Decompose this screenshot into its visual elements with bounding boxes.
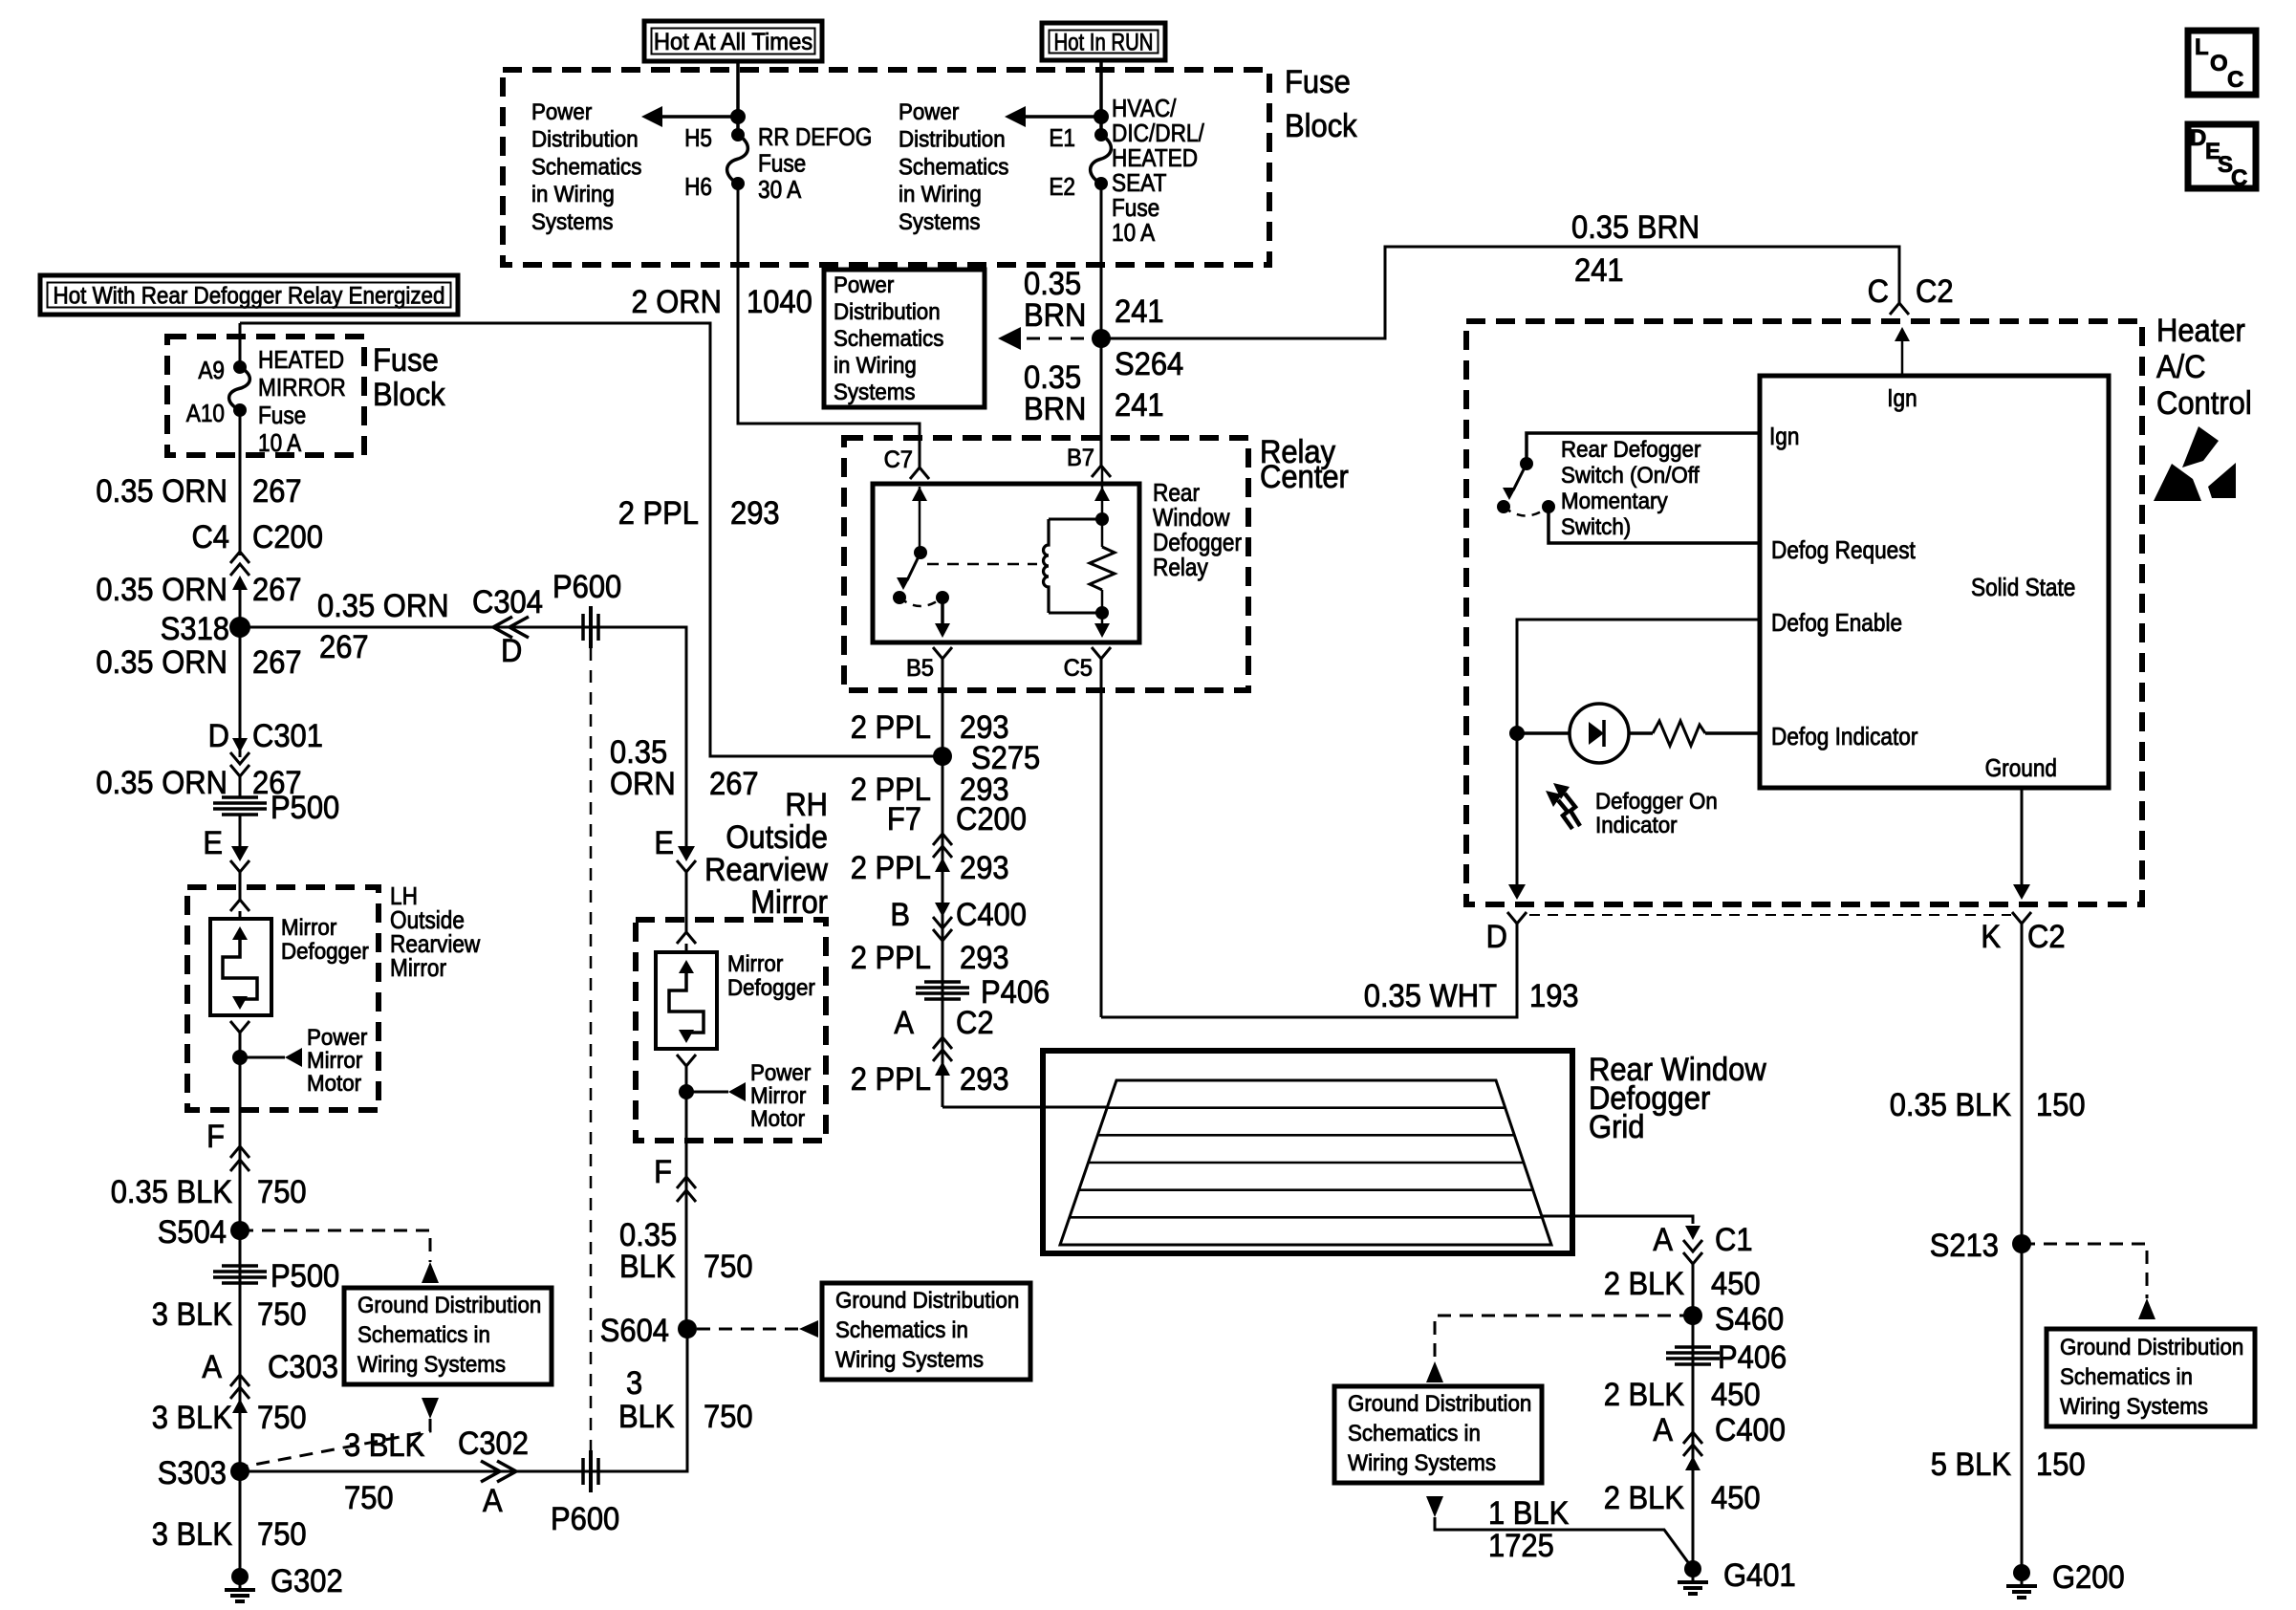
inline connector P500 (222, 795, 258, 799)
svg-text:C400: C400 (956, 897, 1027, 933)
relay switch contact dot (893, 591, 906, 604)
svg-text:193: 193 (1529, 978, 1579, 1014)
switch contact dot left (1497, 500, 1510, 513)
svg-text:S213: S213 (1930, 1228, 1999, 1264)
svg-text:241: 241 (1574, 252, 1624, 289)
svg-text:0.35 ORN: 0.35 ORN (96, 473, 227, 510)
svg-text:C304: C304 (472, 584, 543, 620)
arrow to Power Distribution Schematics (right) (1023, 115, 1101, 119)
svg-text:Momentary: Momentary (1561, 489, 1668, 514)
svg-text:750: 750 (704, 1249, 753, 1285)
svg-text:in Wiring: in Wiring (899, 182, 982, 207)
inline connector P600 (bottom) (581, 1458, 585, 1485)
svg-text:293: 293 (730, 495, 780, 532)
inline connector P600 (top) (581, 614, 585, 641)
svg-text:2 PPL: 2 PPL (851, 940, 931, 976)
banner: Hot With Rear Defogger Relay Energized (40, 275, 458, 315)
wire Defog Enable (1517, 620, 1760, 733)
svg-text:BRN: BRN (1024, 297, 1086, 334)
svg-text:293: 293 (960, 850, 1009, 886)
svg-text:Systems: Systems (834, 380, 916, 405)
wire 2 ORN 1040 from fuse H6 down, over to relay C7 (738, 184, 920, 468)
svg-text:A9: A9 (198, 356, 225, 384)
svg-text:Ground Distribution: Ground Distribution (357, 1293, 541, 1318)
svg-text:BLK: BLK (618, 1399, 675, 1435)
svg-text:C: C (2231, 165, 2247, 191)
svg-text:C400: C400 (1715, 1412, 1786, 1448)
svg-text:Defog Enable: Defog Enable (1771, 608, 1902, 637)
wire below element (230, 1021, 249, 1033)
LH mirror defogger element (210, 919, 271, 1015)
svg-text:C2: C2 (2027, 919, 2066, 955)
note box Ground Distribution (S460) (1334, 1386, 1542, 1483)
svg-text:Defogger: Defogger (727, 975, 815, 1001)
svg-text:Ground Distribution: Ground Distribution (835, 1288, 1019, 1314)
svg-text:P500: P500 (271, 790, 339, 826)
wire Ign to rear defogger switch (1527, 433, 1760, 464)
svg-text:2 PPL: 2 PPL (851, 850, 931, 886)
svg-text:2 PPL: 2 PPL (851, 1061, 931, 1098)
svg-text:Power: Power (834, 272, 894, 298)
svg-text:C2: C2 (1916, 273, 1954, 310)
svg-text:P600: P600 (552, 569, 621, 605)
svg-text:Mirror: Mirror (727, 951, 783, 977)
svg-text:Schematics in: Schematics in (357, 1322, 490, 1348)
LED indicator circle (1570, 704, 1629, 763)
svg-text:1725: 1725 (1488, 1528, 1554, 1564)
svg-text:P406: P406 (1718, 1339, 1787, 1376)
svg-text:Mirror: Mirror (750, 884, 828, 921)
svg-text:RR DEFOG: RR DEFOG (758, 122, 872, 151)
svg-text:10 A: 10 A (1112, 218, 1156, 247)
svg-text:A/C: A/C (2156, 349, 2206, 385)
svg-text:Switch (On/Off: Switch (On/Off (1561, 463, 1700, 489)
svg-text:H5: H5 (684, 123, 712, 152)
svg-text:in Wiring: in Wiring (531, 182, 615, 207)
svg-text:Power: Power (750, 1060, 811, 1086)
LH mirror dashed box (187, 887, 379, 1110)
svg-text:Defogger: Defogger (281, 939, 369, 965)
wire 2 PPL into grid (942, 1106, 1109, 1109)
svg-text:Schematics in: Schematics in (2060, 1364, 2193, 1390)
banner: Hot At All Times (644, 21, 822, 61)
svg-text:A: A (202, 1349, 222, 1385)
grid horizontal lines (1107, 1106, 1505, 1109)
svg-text:Mirror: Mirror (390, 953, 446, 982)
svg-text:Defog Request: Defog Request (1771, 535, 1917, 564)
svg-text:BLK: BLK (619, 1249, 676, 1285)
svg-text:2 PPL: 2 PPL (851, 709, 931, 746)
junction dot defog indicator (1509, 726, 1525, 741)
svg-text:Schematics: Schematics (899, 154, 1008, 180)
splice S504 (230, 1221, 249, 1240)
svg-text:E: E (203, 825, 223, 861)
note box Power Distribution Schematics in Wiring Systems (824, 270, 985, 407)
svg-text:F: F (654, 1154, 672, 1190)
wire C5 down from relay (1100, 659, 1103, 1017)
svg-text:Wiring Systems: Wiring Systems (835, 1347, 984, 1373)
svg-text:Ground Distribution: Ground Distribution (2060, 1335, 2243, 1360)
svg-text:G401: G401 (1723, 1557, 1796, 1594)
ground G401 (1684, 1560, 1701, 1577)
svg-text:Fuse: Fuse (373, 342, 439, 379)
svg-text:150: 150 (2036, 1447, 2086, 1483)
svg-text:F: F (206, 1119, 225, 1155)
svg-text:Control: Control (2156, 385, 2252, 422)
svg-text:C2: C2 (956, 1005, 994, 1041)
svg-text:3 BLK: 3 BLK (152, 1516, 233, 1553)
svg-text:Wiring Systems: Wiring Systems (1348, 1450, 1496, 1476)
wire: Hot At All Times down to H5 (736, 61, 740, 135)
dashed from S604 to right note box (697, 1328, 799, 1331)
heater A/C control dashed box (1466, 321, 2142, 904)
svg-text:C302: C302 (458, 1425, 529, 1462)
svg-text:C200: C200 (956, 801, 1027, 838)
wire fuse A10 down to S318 etc (239, 410, 242, 555)
svg-text:267: 267 (709, 766, 759, 802)
svg-text:Fuse: Fuse (758, 149, 806, 178)
dashed from S213 to right note box (2022, 1244, 2147, 1298)
wire 3 BLK 750 from S303 right through C302 P600 up to S604 (240, 1329, 687, 1471)
svg-text:D: D (2190, 125, 2206, 151)
svg-text:3 BLK: 3 BLK (152, 1400, 233, 1436)
wire 1 BLK 1725 from note box to G401 (1435, 1517, 1693, 1569)
wire S504 to P500 to S303 (239, 1230, 242, 1471)
svg-text:450: 450 (1711, 1377, 1761, 1413)
fuse block dashed box (503, 70, 1269, 265)
svg-text:Ground: Ground (1985, 753, 2057, 782)
svg-text:2 BLK: 2 BLK (1604, 1480, 1685, 1516)
ground G302 (231, 1568, 249, 1585)
splice S275 (933, 747, 952, 766)
svg-text:Schematics: Schematics (531, 154, 641, 180)
wire 2 PPL from B5 to S275 to grid (942, 659, 944, 1107)
svg-text:Ign: Ign (1769, 422, 1799, 450)
wire K down to S213 and G200 (2021, 924, 2024, 1573)
svg-text:750: 750 (257, 1296, 307, 1333)
svg-text:D: D (208, 718, 229, 754)
note box Ground Distribution (S604) (822, 1283, 1030, 1380)
svg-text:O: O (2210, 51, 2228, 76)
svg-text:10 A: 10 A (258, 428, 302, 457)
svg-text:Mirror: Mirror (750, 1083, 806, 1109)
hot-with wire from fuse A9 run to S275 (240, 323, 942, 756)
svg-text:B: B (890, 897, 910, 933)
grid trapezoid (1060, 1080, 1551, 1245)
svg-text:S264: S264 (1115, 346, 1183, 382)
triangle below S460 note box (1426, 1496, 1443, 1517)
svg-text:150: 150 (2036, 1087, 2086, 1123)
svg-text:Schematics in: Schematics in (1348, 1421, 1481, 1447)
wire down to S460 (1692, 1264, 1695, 1569)
svg-text:267: 267 (252, 572, 302, 608)
svg-text:H6: H6 (684, 172, 712, 201)
svg-text:1 BLK: 1 BLK (1488, 1495, 1570, 1532)
relay switch arm (907, 553, 921, 580)
fuse RR DEFOG 30A between H5 H6 (727, 135, 748, 184)
svg-text:Heater: Heater (2156, 313, 2245, 349)
svg-text:Rear Defogger: Rear Defogger (1561, 437, 1700, 463)
svg-text:0.35 ORN: 0.35 ORN (96, 765, 227, 801)
svg-text:750: 750 (257, 1174, 307, 1210)
svg-text:C1: C1 (1715, 1222, 1753, 1258)
chevron into LH mirror (230, 900, 249, 911)
note box Ground Distribution (left) (344, 1288, 552, 1384)
relay resistor (right branch) (1101, 468, 1104, 547)
svg-text:Hot At All Times: Hot At All Times (654, 29, 812, 55)
splice S213 (2012, 1234, 2031, 1253)
svg-text:3: 3 (626, 1365, 642, 1402)
svg-text:0.35 BRN: 0.35 BRN (1571, 209, 1700, 246)
wire defog indicator through LED and resistor (1517, 731, 1570, 735)
DESC box (2188, 124, 2256, 188)
svg-text:C: C (2227, 67, 2243, 93)
svg-text:Wiring Systems: Wiring Systems (2060, 1394, 2208, 1420)
svg-text:A: A (1653, 1412, 1673, 1448)
svg-text:0.35 WHT: 0.35 WHT (1364, 978, 1497, 1014)
svg-text:293: 293 (960, 940, 1009, 976)
svg-text:Solid State: Solid State (1971, 573, 2075, 601)
long dashed link from P600 to bottom P600 (590, 648, 593, 1451)
svg-text:Defog Indicator: Defog Indicator (1771, 722, 1918, 751)
svg-text:2 ORN: 2 ORN (631, 284, 722, 320)
svg-text:Hot With Rear Defogger Relay E: Hot With Rear Defogger Relay Energized (54, 282, 445, 309)
svg-text:Power: Power (531, 99, 592, 125)
svg-text:750: 750 (344, 1480, 394, 1516)
svg-text:Relay: Relay (1153, 553, 1208, 581)
note box Ground Distribution (S213) (2047, 1329, 2255, 1426)
wire to heater D 0.35 WHT 193 (1101, 924, 1517, 1017)
svg-text:0.35 ORN: 0.35 ORN (96, 644, 227, 681)
svg-text:G302: G302 (271, 1563, 343, 1599)
svg-text:Hot In RUN: Hot In RUN (1054, 29, 1154, 55)
svg-text:Indicator: Indicator (1595, 813, 1678, 838)
svg-text:2 BLK: 2 BLK (1604, 1377, 1685, 1413)
svg-text:Block: Block (1285, 108, 1358, 144)
svg-text:S460: S460 (1715, 1301, 1784, 1338)
svg-text:C303: C303 (268, 1349, 338, 1385)
wire 0.35 BRN 241 from fuse E2 down through S264 to relay B7 (1100, 184, 1103, 468)
resistor to Defog Indicator pin (1653, 721, 1705, 746)
relay output wire to B5 (941, 598, 944, 623)
svg-text:ORN: ORN (610, 766, 676, 802)
relay switch pivot dot (914, 546, 927, 559)
relay coil junction dots (1095, 512, 1109, 526)
svg-text:D: D (1486, 919, 1507, 955)
svg-text:2 BLK: 2 BLK (1604, 1266, 1685, 1302)
svg-text:Block: Block (373, 377, 446, 413)
connector C304 half arrows (493, 617, 512, 638)
junction dot above H5 (730, 109, 746, 124)
svg-text:S604: S604 (600, 1313, 669, 1349)
svg-text:P500: P500 (271, 1258, 339, 1295)
svg-text:750: 750 (257, 1516, 307, 1553)
svg-text:267: 267 (319, 629, 369, 665)
svg-text:Mirror: Mirror (281, 915, 336, 941)
relay center dashed box (844, 438, 1248, 690)
wire defog enable branch down to D (1516, 733, 1519, 885)
connector C302 half arrows (481, 1461, 500, 1482)
svg-text:K: K (1981, 919, 2001, 955)
RH mirror defogger element (656, 952, 717, 1049)
svg-text:Systems: Systems (531, 209, 614, 235)
svg-text:Center: Center (1260, 459, 1349, 495)
inline connector P500 (lower) (222, 1264, 258, 1268)
wire S318 down to C301 (239, 627, 242, 757)
RH mirror dashed box (636, 920, 826, 1141)
relay dashed link switch to coil (927, 563, 1037, 566)
fuse HVAC/DIC/DRL/HEATED SEAT 10A between E1 E2 (1091, 135, 1112, 184)
svg-text:S504: S504 (158, 1214, 227, 1251)
svg-text:5 BLK: 5 BLK (1931, 1447, 2012, 1483)
svg-text:450: 450 (1711, 1266, 1761, 1302)
svg-text:A: A (483, 1483, 503, 1519)
Ign pin top with arrow to C2 (1901, 338, 1904, 376)
wire: Hot In RUN down to E1 (1099, 60, 1103, 135)
switch arm (1513, 464, 1527, 490)
junction dot to power mirror motor (RH) (679, 1084, 694, 1099)
banner: Hot In RUN (1042, 23, 1165, 60)
ESD sensitive icon (2182, 426, 2219, 468)
svg-text:B7: B7 (1067, 445, 1094, 471)
svg-text:A: A (894, 1005, 914, 1041)
svg-text:C4: C4 (191, 519, 229, 555)
svg-text:E2: E2 (1049, 172, 1075, 201)
svg-text:A: A (1653, 1222, 1673, 1258)
lightning arrows icon (1565, 794, 1580, 826)
inline connector P406 (924, 980, 961, 984)
svg-text:2 PPL: 2 PPL (618, 495, 699, 532)
svg-text:P600: P600 (551, 1501, 619, 1537)
svg-text:30 A: 30 A (758, 175, 802, 204)
triangle below left note box (422, 1398, 439, 1419)
wire into heated mirror fuse (239, 323, 242, 367)
wire below element (RH) (677, 1055, 696, 1066)
svg-text:750: 750 (704, 1399, 753, 1435)
svg-text:750: 750 (257, 1400, 307, 1436)
junction dot to power mirror motor (LH) (232, 1050, 248, 1065)
solid state control box (1760, 376, 2109, 788)
inline connector P406 (lower) (1675, 1345, 1711, 1349)
svg-text:Rearview: Rearview (704, 852, 828, 888)
svg-text:S318: S318 (161, 611, 229, 647)
splice S303 (230, 1462, 249, 1481)
svg-text:in Wiring: in Wiring (834, 353, 917, 379)
svg-text:G200: G200 (2052, 1559, 2125, 1596)
dashed from note box down to S303 (244, 1419, 430, 1467)
rear window defogger grid box (1043, 1051, 1572, 1253)
wire S264 right and up to 0.35 BRN 241 run to heater C2 (1101, 247, 1899, 338)
svg-text:C7: C7 (884, 446, 913, 473)
wire out of grid to A C1 (1542, 1216, 1693, 1224)
svg-text:Fuse: Fuse (1285, 64, 1351, 100)
LOC box (2188, 31, 2256, 95)
svg-text:450: 450 (1711, 1480, 1761, 1516)
junction dot above E1 (1094, 109, 1109, 124)
svg-text:Distribution: Distribution (834, 299, 941, 325)
svg-text:Motor: Motor (750, 1106, 805, 1132)
relay switch input from C7 (912, 487, 927, 501)
svg-text:Ign: Ign (1887, 383, 1917, 412)
svg-text:Schematics: Schematics (834, 326, 943, 352)
svg-text:Schematics in: Schematics in (835, 1317, 968, 1343)
switch contact dot right (1542, 500, 1555, 513)
fuse HEATED MIRROR 10A (229, 367, 250, 410)
svg-text:Distribution: Distribution (531, 127, 639, 153)
svg-text:BRN: BRN (1024, 391, 1086, 427)
svg-text:241: 241 (1115, 387, 1164, 424)
svg-text:L: L (2195, 34, 2209, 60)
dashed arrow from S264 to power distribution note box (1027, 337, 1092, 340)
svg-text:3 BLK: 3 BLK (344, 1427, 425, 1464)
ground G200 (2013, 1564, 2030, 1581)
svg-text:Power: Power (899, 99, 959, 125)
splice S460 (1683, 1306, 1702, 1325)
svg-text:Defogger On: Defogger On (1595, 789, 1718, 815)
svg-text:Systems: Systems (899, 209, 981, 235)
svg-text:C5: C5 (1064, 655, 1093, 682)
wire 0.35 ORN from S318 right through C304 P600 to RH mirror (240, 627, 686, 847)
svg-text:E1: E1 (1049, 123, 1075, 152)
dashed from S460 left to note box (1435, 1316, 1693, 1361)
wire switch to Defog Request pin (1549, 507, 1760, 543)
switch dashed arc (1504, 507, 1549, 516)
splice S318 (229, 617, 250, 638)
rear window defogger relay box (873, 484, 1139, 642)
svg-text:MIRROR: MIRROR (258, 373, 346, 402)
svg-text:267: 267 (252, 473, 302, 510)
svg-text:0.35 ORN: 0.35 ORN (96, 572, 227, 608)
arrow to Power Distribution Schematics (left) (660, 115, 738, 119)
splice S604 (678, 1319, 697, 1338)
relay switch dashed arc (899, 598, 942, 606)
svg-text:Distribution: Distribution (899, 127, 1006, 153)
svg-text:241: 241 (1115, 294, 1164, 330)
relay coil (left branch) (1049, 518, 1102, 521)
svg-text:F7: F7 (887, 801, 921, 838)
wire to LH mirror with connector E (239, 814, 242, 847)
svg-text:Fuse: Fuse (258, 401, 306, 429)
svg-text:C: C (1868, 273, 1889, 310)
svg-text:267: 267 (252, 644, 302, 681)
svg-text:A10: A10 (186, 399, 225, 427)
wire ground pin down to K (2021, 788, 2024, 885)
svg-text:HEATED: HEATED (258, 345, 344, 374)
switch pivot dot (1520, 457, 1533, 470)
svg-text:Motor: Motor (307, 1071, 361, 1097)
connector face dashed line D to K (1529, 914, 2011, 916)
svg-text:D: D (501, 633, 522, 669)
svg-text:0.35 BLK: 0.35 BLK (1890, 1087, 2012, 1123)
svg-text:C301: C301 (252, 718, 323, 754)
svg-text:Mirror: Mirror (307, 1048, 362, 1074)
fuse block dashed box (heated mirror) (167, 337, 364, 455)
svg-text:Wiring Systems: Wiring Systems (357, 1352, 506, 1378)
svg-text:Power: Power (307, 1025, 367, 1051)
splice S264 (1092, 329, 1111, 348)
svg-text:RH: RH (785, 787, 828, 823)
relay switch second contact dot (936, 591, 949, 604)
svg-text:3 BLK: 3 BLK (152, 1296, 233, 1333)
svg-text:E: E (654, 825, 674, 861)
svg-text:B5: B5 (906, 655, 934, 682)
wire S303 down to G302 (239, 1471, 242, 1577)
svg-text:0.35 BLK: 0.35 BLK (111, 1174, 233, 1210)
svg-text:1040: 1040 (747, 284, 812, 320)
svg-text:0.35 ORN: 0.35 ORN (317, 588, 449, 624)
svg-text:Switch): Switch) (1561, 514, 1631, 540)
svg-text:C200: C200 (252, 519, 323, 555)
